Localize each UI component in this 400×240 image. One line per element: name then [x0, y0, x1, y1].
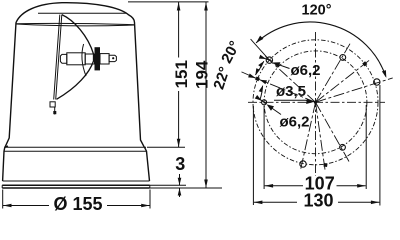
- svg-text:194: 194: [192, 60, 211, 89]
- svg-text:20°: 20°: [218, 38, 244, 66]
- svg-text:ø6,2: ø6,2: [279, 114, 309, 131]
- svg-text:Ø 155: Ø 155: [53, 194, 102, 213]
- svg-text:22°: 22°: [210, 65, 233, 92]
- svg-text:ø6,2: ø6,2: [290, 62, 320, 79]
- svg-text:130: 130: [303, 190, 333, 210]
- svg-text:120°: 120°: [302, 3, 332, 19]
- svg-text:151: 151: [172, 60, 191, 88]
- svg-text:ø3,5: ø3,5: [276, 83, 306, 100]
- svg-text:3: 3: [175, 154, 185, 174]
